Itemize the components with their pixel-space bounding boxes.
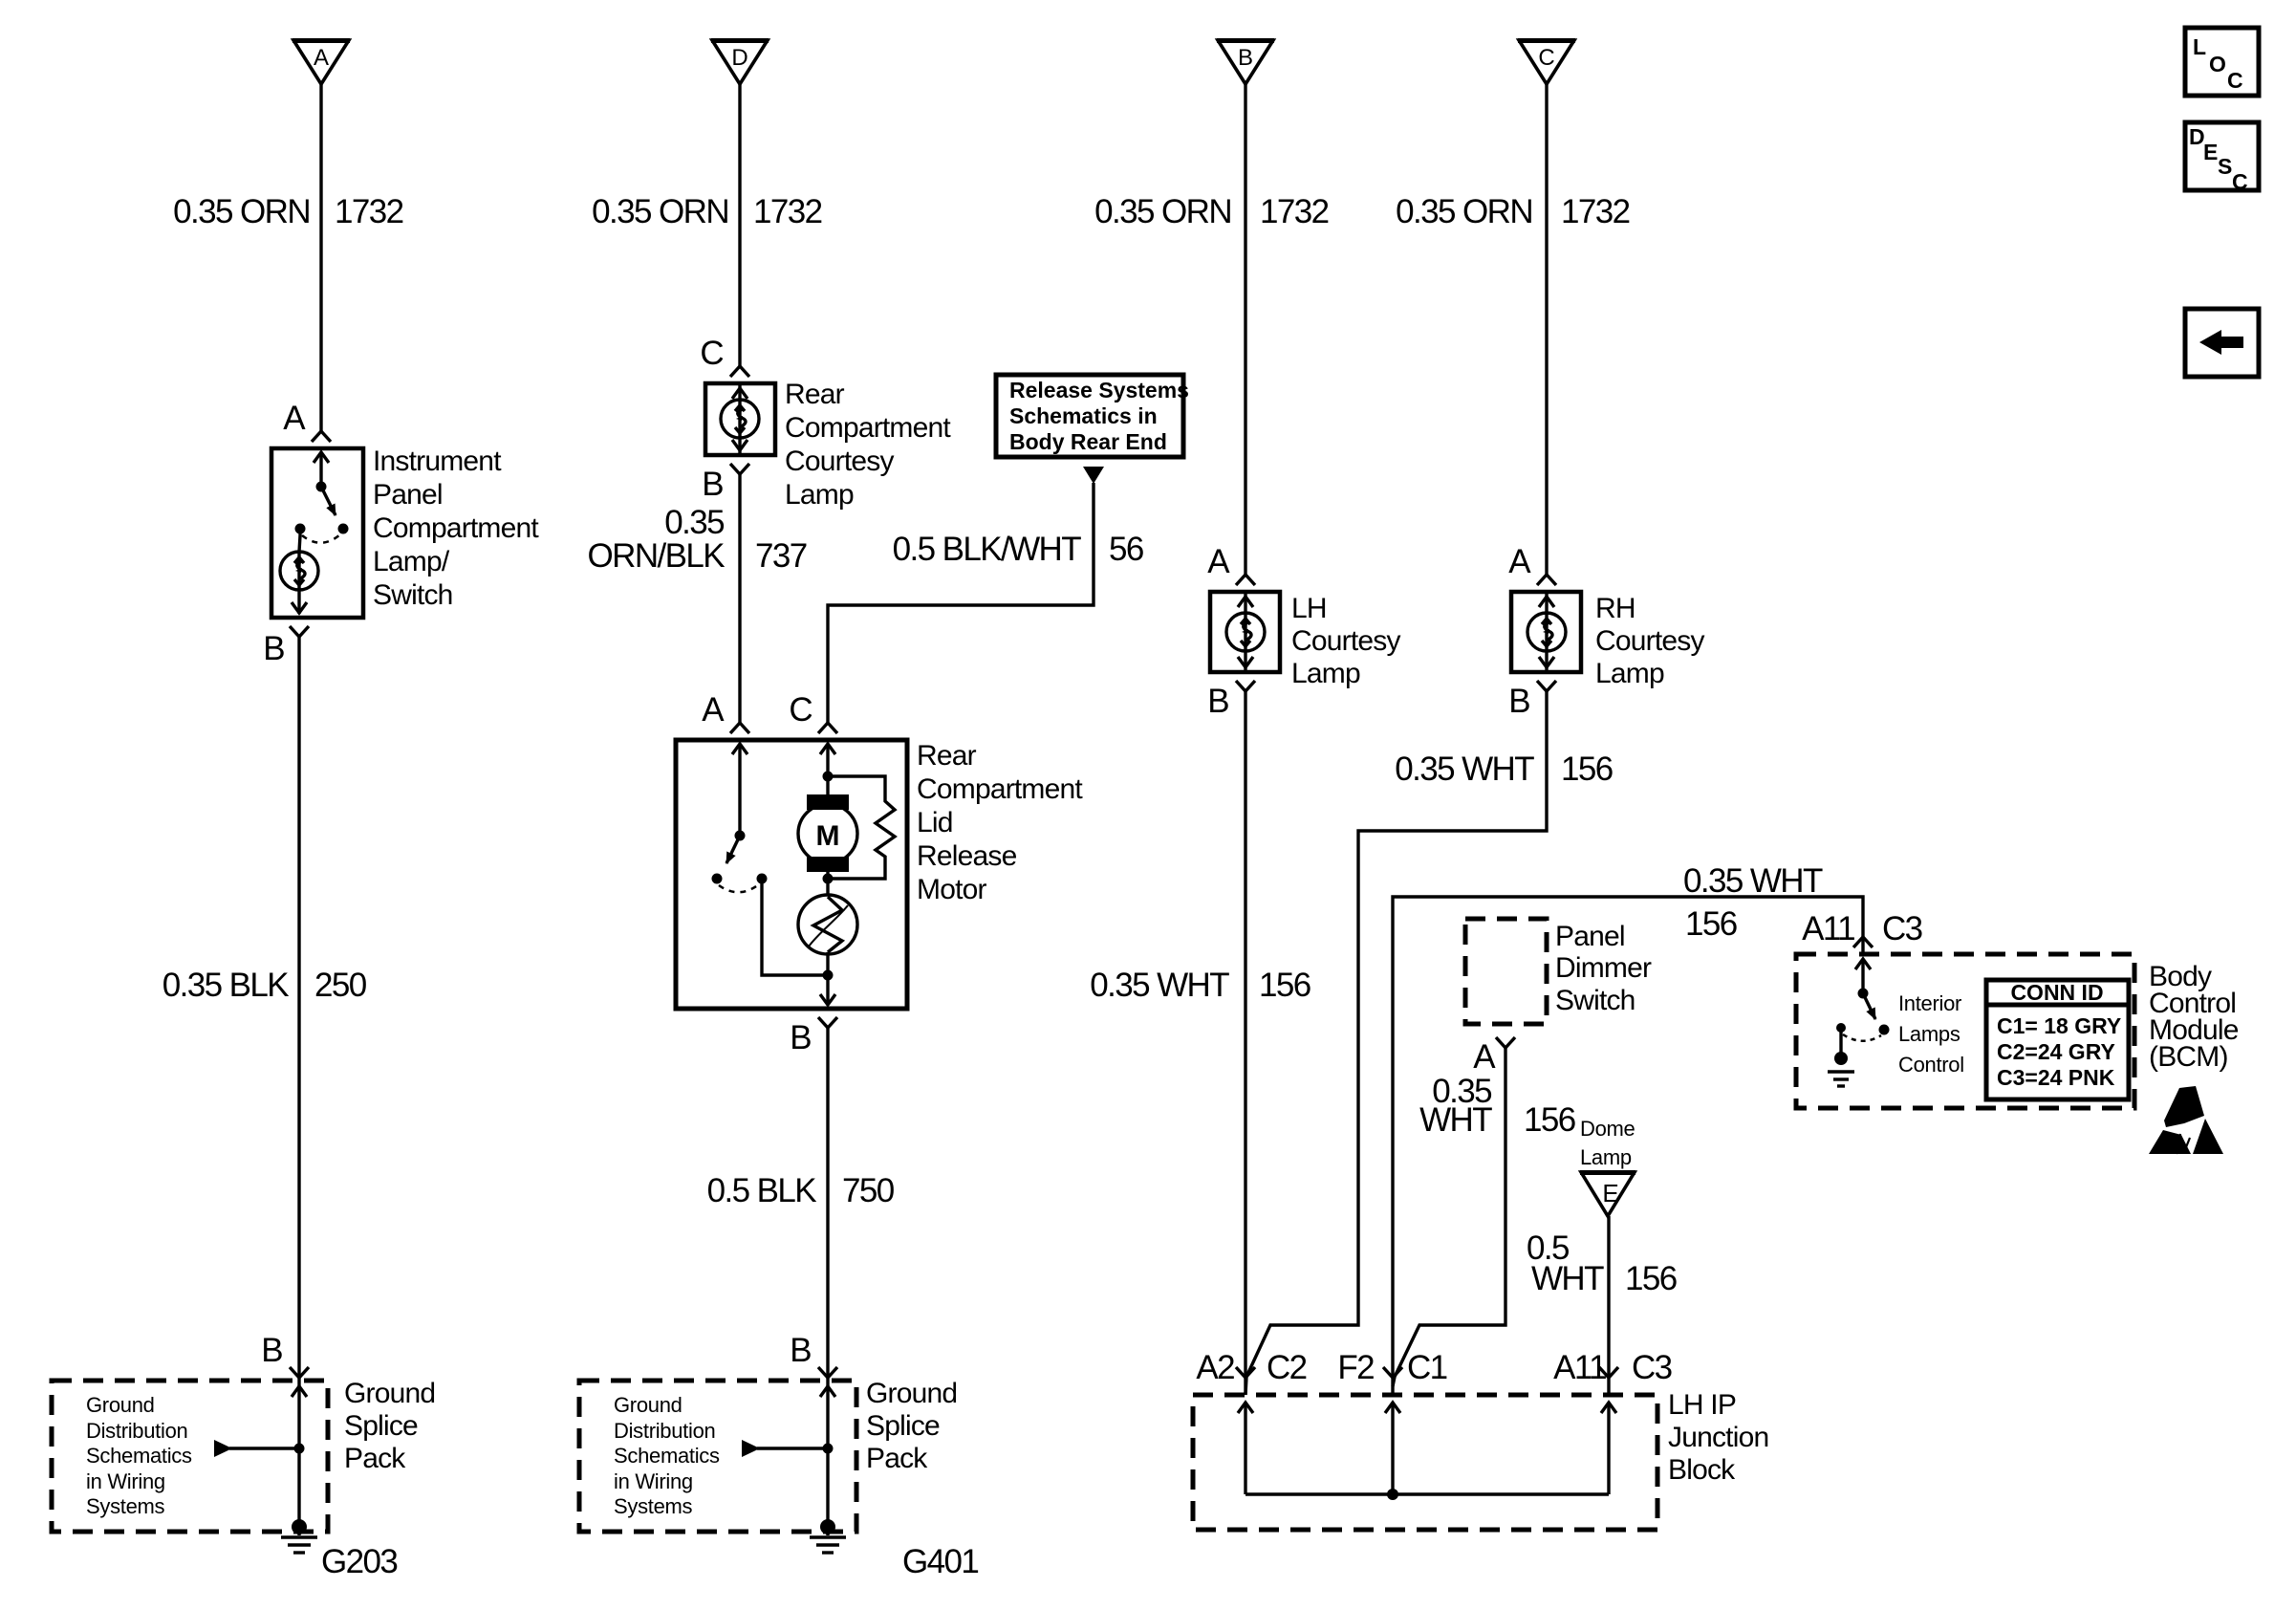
svg-text:in Wiring: in Wiring [614, 1469, 693, 1493]
svg-text:C: C [2232, 169, 2248, 194]
reference arrow (right splice pack) [742, 1440, 834, 1457]
motor pin A internal arrow + switch [712, 744, 768, 892]
splice wire with pin arrow (right) [820, 1382, 835, 1527]
value label 0.5 WHT (dome) [1527, 1229, 1604, 1297]
connector chevron LH lamp pin A [1236, 575, 1255, 585]
svg-text:Compartment: Compartment [785, 412, 951, 444]
svg-text:F2: F2 [1337, 1349, 1374, 1386]
svg-text:Lamp: Lamp [1291, 658, 1360, 689]
value label 0.35 ORN/BLK [588, 504, 726, 575]
DESC legend box [2185, 122, 2259, 194]
ground splice pack dashed box (right) [579, 1381, 856, 1532]
svg-text:C3=24 PNK: C3=24 PNK [1997, 1065, 2115, 1090]
panel dimmer switch dashed box [1465, 919, 1547, 1024]
connector chevron pin B [290, 626, 309, 637]
svg-text:A: A [1508, 543, 1531, 580]
component label Panel Dimmer Switch [1555, 921, 1652, 1016]
pin A internal arrow [314, 452, 329, 487]
svg-text:Switch: Switch [373, 579, 453, 611]
svg-text:RH: RH [1595, 593, 1635, 624]
svg-text:Lamp: Lamp [1595, 658, 1664, 689]
svg-text:0.35 ORN: 0.35 ORN [1396, 193, 1532, 230]
wire circuit 156 (junction F2 riser to BCM A11) [1393, 897, 1863, 1395]
svg-text:1732: 1732 [1561, 193, 1630, 230]
svg-text:B: B [1207, 683, 1228, 720]
junction internal bus wire [1245, 1492, 1609, 1495]
component label Ground Splice Pack (left) [344, 1378, 435, 1474]
svg-text:1732: 1732 [335, 193, 403, 230]
connector chevron BCM pin [1853, 937, 1873, 947]
connector triangle B [1217, 40, 1274, 84]
wire circuit 1732 (connector D to courtesy lamp pin C) [738, 84, 741, 366]
svg-text:Splice: Splice [866, 1410, 940, 1442]
svg-text:Lamps: Lamps [1898, 1022, 1960, 1046]
svg-text:C: C [1538, 45, 1554, 71]
svg-text:B: B [790, 1332, 811, 1369]
svg-text:Ground: Ground [614, 1393, 682, 1417]
svg-text:A: A [702, 691, 725, 729]
component label LH Courtesy Lamp [1291, 593, 1400, 689]
wire circuit 750 (motor B to ground splice) [826, 1028, 829, 1382]
LOC legend box [2185, 28, 2259, 96]
connector chevron junction F2 [1383, 1367, 1402, 1378]
connector chevron RH lamp pin A [1537, 575, 1556, 585]
svg-text:Distribution: Distribution [86, 1419, 187, 1443]
svg-text:Systems: Systems [614, 1494, 693, 1518]
component label Instrument Panel Compartment Lamp/Switch [373, 446, 539, 611]
svg-text:A2: A2 [1196, 1349, 1234, 1386]
label Dome Lamp [1580, 1117, 1635, 1169]
motor switch throw wire to bottom node [762, 879, 828, 975]
LH IP junction block dashed box [1193, 1395, 1657, 1530]
wire circuit 156 (dome lamp to junction A11) [1607, 1216, 1610, 1395]
svg-text:B: B [702, 466, 723, 503]
svg-text:737: 737 [755, 537, 807, 575]
svg-text:156: 156 [1524, 1101, 1575, 1139]
svg-text:E: E [2203, 140, 2218, 164]
connector chevron LH lamp pin B [1236, 681, 1255, 691]
svg-text:0.35 WHT: 0.35 WHT [1090, 967, 1229, 1004]
svg-text:156: 156 [1685, 905, 1737, 943]
connector chevron junction A2 [1236, 1367, 1255, 1378]
svg-text:Panel: Panel [1555, 921, 1625, 952]
svg-text:250: 250 [314, 967, 367, 1004]
svg-text:1732: 1732 [753, 193, 822, 230]
CONN ID table [1986, 980, 2129, 1099]
connector triangle A [292, 40, 350, 84]
svg-text:A11: A11 [1802, 910, 1854, 947]
connector chevron below courtesy lamp [730, 464, 749, 474]
svg-text:Control: Control [1898, 1053, 1964, 1077]
svg-text:A11: A11 [1553, 1349, 1606, 1386]
note text Ground Distribution Schematics in Wiring Systems (right) [614, 1393, 720, 1518]
svg-text:L: L [2193, 34, 2206, 59]
svg-text:Release: Release [917, 840, 1017, 872]
junction internal pin arrow A11 [1601, 1403, 1616, 1494]
svg-text:Rear: Rear [785, 379, 845, 410]
ground splice pack dashed box (left) [52, 1381, 328, 1532]
lamp L2 (rear compartment courtesy lamp) [721, 383, 759, 455]
svg-text:D: D [731, 45, 747, 71]
svg-text:Schematics: Schematics [614, 1444, 720, 1468]
instrument panel compartment lamp/switch box [271, 448, 363, 618]
svg-text:1732: 1732 [1260, 193, 1329, 230]
svg-text:0.5 BLK: 0.5 BLK [707, 1172, 817, 1209]
svg-text:C1: C1 [1407, 1349, 1447, 1386]
RH courtesy lamp box [1511, 592, 1581, 672]
svg-text:B: B [263, 630, 284, 667]
wire circuit 156 (dimmer A to junction F2) [1393, 1048, 1505, 1386]
BCM pin internal arrow + interior lamps control switch [1836, 959, 1890, 1041]
wire circuit 156 (LH lamp B to junction block A2) [1244, 691, 1246, 1395]
svg-text:Release Systems: Release Systems [1009, 378, 1189, 402]
svg-text:0.5 BLK/WHT: 0.5 BLK/WHT [893, 531, 1082, 568]
body control module dashed box [1796, 954, 2134, 1108]
wire circuit 250 (lamp/switch pin B to ground splice) [297, 637, 300, 1382]
wire circuit 1732 (connector C to RH courtesy lamp) [1545, 81, 1548, 575]
rear compartment lid release motor box [676, 740, 907, 1009]
note text Ground Distribution Schematics in Wiring Systems (left) [86, 1393, 192, 1518]
svg-text:Schematics in: Schematics in [1009, 403, 1158, 428]
component label Rear Compartment Courtesy Lamp [785, 379, 951, 511]
note text Release Systems Schematics in Body Rear End [1009, 378, 1189, 454]
svg-text:C1= 18 GRY: C1= 18 GRY [1997, 1013, 2121, 1038]
wire circuit 737 (courtesy lamp B to motor pin A) [738, 474, 741, 723]
svg-text:Dimmer: Dimmer [1555, 952, 1652, 984]
svg-text:B: B [261, 1332, 282, 1369]
lamp L4 (RH courtesy lamp) [1527, 592, 1566, 672]
svg-text:Lamp: Lamp [1580, 1145, 1632, 1169]
svg-text:Panel: Panel [373, 479, 443, 511]
svg-text:(BCM): (BCM) [2149, 1041, 2228, 1073]
wire circuit 56 (release systems to motor pin C) [828, 483, 1094, 723]
svg-text:0.35: 0.35 [664, 504, 724, 541]
svg-text:LH IP: LH IP [1668, 1389, 1736, 1421]
ground symbol G401 [810, 1519, 846, 1553]
svg-text:G203: G203 [321, 1543, 397, 1580]
reference arrow (left splice pack) [214, 1440, 305, 1457]
svg-text:C: C [2227, 68, 2243, 93]
junction internal pin arrow F2 [1385, 1403, 1400, 1494]
svg-text:Switch: Switch [1555, 985, 1635, 1016]
splice wire with pin arrow (left) [292, 1382, 307, 1527]
wire circuit 1732 (connector B to LH courtesy lamp) [1244, 81, 1246, 575]
connector chevron motor pin B [818, 1017, 837, 1028]
connector chevron motor pin C [818, 723, 837, 733]
svg-text:750: 750 [842, 1172, 895, 1209]
switch SW1 (lamp switch) [295, 482, 349, 543]
release systems callout box [996, 375, 1183, 457]
connector chevron at right ground splice pack [818, 1367, 837, 1378]
connector chevron junction A11 [1599, 1367, 1618, 1378]
connector chevron pin C [730, 366, 749, 377]
svg-text:Instrument: Instrument [373, 446, 502, 477]
component label Body Control Module (BCM) [2149, 961, 2239, 1073]
reference arrow below release systems box [1083, 467, 1104, 484]
svg-text:B: B [790, 1019, 811, 1056]
svg-text:Body Rear End: Body Rear End [1009, 429, 1167, 454]
svg-text:Dome: Dome [1580, 1117, 1635, 1141]
svg-text:WHT: WHT [1419, 1101, 1492, 1139]
LH courtesy lamp box [1210, 592, 1280, 672]
connector chevron pin A [312, 431, 331, 442]
svg-text:156: 156 [1259, 967, 1310, 1004]
svg-text:WHT: WHT [1531, 1260, 1604, 1297]
svg-text:C3: C3 [1882, 910, 1922, 947]
svg-text:Junction: Junction [1668, 1422, 1768, 1453]
svg-text:Lid: Lid [917, 807, 953, 838]
svg-text:Splice: Splice [344, 1410, 418, 1442]
motor pin C internal arrow [820, 744, 835, 776]
svg-text:Interior: Interior [1898, 991, 1961, 1015]
svg-text:0.35 BLK: 0.35 BLK [162, 967, 289, 1004]
wire circuit 156 (RH lamp B routed to junction block A2) [1245, 691, 1547, 1395]
connector chevron motor pin A [730, 723, 749, 733]
svg-text:Schematics: Schematics [86, 1444, 192, 1468]
connector triangle C [1518, 40, 1575, 84]
node: resistor top junction [823, 772, 834, 782]
circuit breaker CB (thermal protector) [798, 895, 857, 954]
svg-text:0.35 ORN: 0.35 ORN [173, 193, 310, 230]
svg-text:C: C [700, 335, 723, 372]
connector chevron at ground splice pack [290, 1367, 309, 1378]
svg-text:Ground: Ground [866, 1378, 957, 1409]
svg-text:B: B [1508, 683, 1529, 720]
svg-text:0.35 ORN: 0.35 ORN [592, 193, 728, 230]
svg-text:0.35 WHT: 0.35 WHT [1683, 862, 1823, 900]
svg-text:Pack: Pack [344, 1443, 406, 1474]
svg-text:Block: Block [1668, 1454, 1736, 1486]
component label Rear Compartment Lid Release Motor [917, 740, 1083, 905]
lamp L1 (instrument panel compartment lamp) [280, 529, 318, 614]
svg-text:Distribution: Distribution [614, 1419, 715, 1443]
svg-text:in Wiring: in Wiring [86, 1469, 165, 1493]
svg-text:Ground: Ground [344, 1378, 435, 1409]
svg-text:C2=24 GRY: C2=24 GRY [1997, 1039, 2115, 1064]
svg-text:Compartment: Compartment [917, 773, 1083, 805]
svg-text:56: 56 [1109, 531, 1143, 568]
wire circuit 1732 (connector A to lamp/switch pin A) [319, 84, 322, 431]
svg-text:Ground: Ground [86, 1393, 155, 1417]
svg-text:A: A [314, 45, 329, 71]
node: motor bottom junction [823, 874, 834, 884]
svg-text:E: E [1602, 1179, 1618, 1207]
connector triangle D [711, 40, 769, 84]
back arrow legend box [2185, 309, 2259, 377]
svg-text:156: 156 [1625, 1260, 1677, 1297]
svg-text:C2: C2 [1267, 1349, 1307, 1386]
svg-text:C: C [789, 691, 812, 729]
svg-text:Pack: Pack [866, 1443, 928, 1474]
svg-text:ORN/BLK: ORN/BLK [588, 537, 726, 575]
svg-text:0.35 WHT: 0.35 WHT [1395, 751, 1534, 788]
motor pin B internal arrow [820, 952, 835, 1005]
component label LH IP Junction Block [1668, 1389, 1768, 1486]
component label Ground Splice Pack (right) [866, 1378, 957, 1474]
svg-text:C3: C3 [1632, 1349, 1672, 1386]
svg-text:Lamp: Lamp [785, 479, 854, 511]
motor M1 (lid release motor) [798, 776, 857, 895]
svg-text:0.35 ORN: 0.35 ORN [1094, 193, 1231, 230]
svg-text:A: A [283, 400, 306, 437]
svg-text:Courtesy: Courtesy [785, 446, 894, 477]
node: junction bus splice [1387, 1489, 1398, 1500]
ESD sensitivity symbol [2149, 1086, 2223, 1154]
BCM internal ground symbol [1828, 1028, 1854, 1086]
svg-text:M: M [816, 820, 840, 852]
svg-text:Courtesy: Courtesy [1291, 625, 1400, 657]
junction internal pin arrow A2 [1238, 1403, 1253, 1494]
connector chevron RH lamp pin B [1537, 681, 1556, 691]
svg-text:G401: G401 [902, 1543, 978, 1580]
rear compartment courtesy lamp box [705, 383, 775, 455]
svg-text:O: O [2209, 52, 2226, 76]
svg-text:Lamp/: Lamp/ [373, 546, 450, 577]
resistor R (motor parallel) [828, 776, 895, 879]
component label RH Courtesy Lamp [1595, 593, 1704, 689]
svg-text:Systems: Systems [86, 1494, 165, 1518]
svg-text:Motor: Motor [917, 874, 986, 905]
value label 0.35 WHT (dimmer) [1419, 1073, 1492, 1139]
connector triangle E (dome lamp) [1580, 1172, 1635, 1216]
lamp L3 (LH courtesy lamp) [1226, 592, 1265, 672]
svg-text:S: S [2218, 154, 2232, 179]
svg-text:B: B [1238, 45, 1253, 71]
svg-text:LH: LH [1291, 593, 1327, 624]
svg-text:Courtesy: Courtesy [1595, 625, 1704, 657]
svg-text:156: 156 [1561, 751, 1613, 788]
svg-text:A: A [1207, 543, 1230, 580]
ground symbol G203 [281, 1519, 317, 1553]
node: motor output junction [823, 970, 834, 981]
connector chevron dimmer pin A [1496, 1037, 1515, 1048]
label Interior Lamps Control [1898, 991, 1964, 1077]
svg-text:A: A [1473, 1038, 1496, 1076]
svg-text:Rear: Rear [917, 740, 977, 772]
svg-text:CONN ID: CONN ID [2010, 980, 2103, 1005]
svg-text:Compartment: Compartment [373, 512, 539, 544]
